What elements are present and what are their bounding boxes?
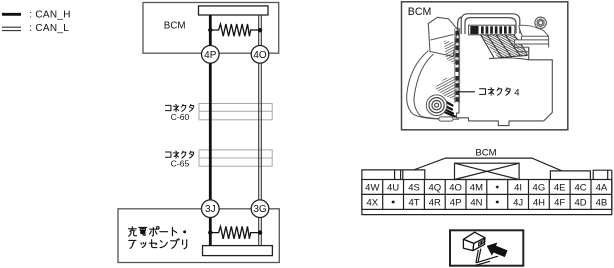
- svg-text:3J: 3J: [205, 204, 216, 215]
- svg-text:: CAN_H: : CAN_H: [29, 9, 71, 20]
- view direction connector sketch: [463, 232, 508, 265]
- mounting bolt: [429, 98, 444, 113]
- connector C-60 box: [199, 104, 272, 120]
- BCM illustration: [407, 14, 553, 126]
- svg-text:BCM: BCM: [408, 6, 432, 18]
- svg-text:4U: 4U: [387, 183, 399, 194]
- resistor inside charging port: [210, 226, 260, 238]
- svg-text:C-60: C-60: [171, 112, 190, 122]
- connector housing outline: [362, 158, 612, 215]
- svg-text:4Q: 4Q: [428, 183, 441, 194]
- svg-text:4P: 4P: [204, 50, 217, 61]
- svg-text:4R: 4R: [429, 198, 441, 209]
- charge port internal bus bar: [203, 246, 273, 256]
- svg-text:4O: 4O: [253, 50, 267, 61]
- svg-text:4I: 4I: [514, 183, 522, 194]
- mounting bolt boss: [426, 95, 447, 116]
- resistor inside BCM (terminating resistor): [210, 24, 260, 36]
- rubber boot: [428, 17, 457, 56]
- svg-text:4C: 4C: [575, 183, 587, 194]
- pin 4P: [202, 46, 220, 64]
- wire harness bundle (hatched): [480, 35, 528, 59]
- wire CAN_L upper segment (double line): [259, 15, 262, 46]
- wire CAN_H upper segment: [209, 15, 212, 46]
- module body outline: [457, 28, 553, 126]
- svg-text:4T: 4T: [408, 198, 419, 209]
- svg-text:: CAN_L: : CAN_L: [29, 23, 69, 34]
- svg-text:4X: 4X: [366, 198, 378, 209]
- BCM module box (left schematic): [143, 3, 279, 54]
- svg-text:BCM: BCM: [475, 147, 496, 158]
- svg-text:4M: 4M: [470, 183, 483, 194]
- harness handle bracket: [458, 14, 520, 34]
- mounting bracket: [515, 25, 549, 52]
- view direction box: [450, 230, 523, 265]
- corrugated tube: [407, 51, 460, 122]
- harness strands upper fan (hatched): [444, 41, 458, 67]
- svg-text:4D: 4D: [575, 198, 587, 209]
- svg-text:4: 4: [514, 87, 519, 98]
- connector C-65 label: [165, 151, 193, 158]
- svg-text:4E: 4E: [554, 183, 566, 194]
- junction dot port left: [208, 230, 212, 234]
- charging port assembly box: [118, 209, 279, 263]
- svg-text:4N: 4N: [470, 198, 482, 209]
- hex bolt: [535, 17, 546, 28]
- svg-text:4J: 4J: [513, 198, 523, 209]
- svg-text:4A: 4A: [596, 183, 608, 194]
- svg-text:4P: 4P: [450, 198, 462, 209]
- wire CAN_H middle segment: [209, 63, 212, 201]
- connector 4 stack: [455, 28, 460, 103]
- svg-text:4G: 4G: [533, 183, 546, 194]
- wire CAN_L middle segment (double line): [259, 63, 262, 201]
- BCM photo frame: [402, 2, 568, 130]
- junction dot BCM right: [258, 28, 262, 32]
- connector C-65 box: [199, 150, 272, 166]
- svg-text:4S: 4S: [408, 183, 420, 194]
- connector keying box with cross: [455, 163, 520, 179]
- harness strands near bolt: [443, 101, 456, 117]
- svg-text:4O: 4O: [449, 183, 462, 194]
- legend CAN_H line sample: [2, 13, 21, 16]
- BCM internal bus bar: [199, 6, 269, 15]
- wire CAN_H lower segment: [209, 217, 212, 246]
- svg-text:4F: 4F: [554, 198, 565, 209]
- svg-text:3G: 3G: [253, 204, 267, 215]
- connector C-60 label: [165, 104, 193, 111]
- charging port assembly label (drawn glyphs): [128, 227, 186, 249]
- svg-text:4B: 4B: [596, 198, 608, 209]
- junction dot port right: [258, 230, 262, 234]
- wire CAN_L lower segment (double line): [259, 217, 262, 246]
- legend CAN_L double line sample: [2, 27, 21, 30]
- terminal comb row: [469, 25, 515, 35]
- svg-text:C-65: C-65: [171, 158, 190, 168]
- pin 4O: [251, 46, 269, 64]
- junction dot BCM left: [208, 28, 212, 32]
- svg-text:4H: 4H: [533, 198, 545, 209]
- svg-text:4W: 4W: [365, 183, 379, 194]
- pin 3J: [202, 200, 220, 218]
- connector 4 label (drawn glyphs): [480, 87, 520, 98]
- pin 3G: [251, 200, 269, 218]
- svg-text:BCM: BCM: [164, 20, 186, 31]
- harness strands lower fan (hatched): [435, 76, 458, 101]
- pin grid: [362, 180, 612, 210]
- connector 4 label leader: [458, 91, 475, 93]
- pin labels: [365, 183, 608, 209]
